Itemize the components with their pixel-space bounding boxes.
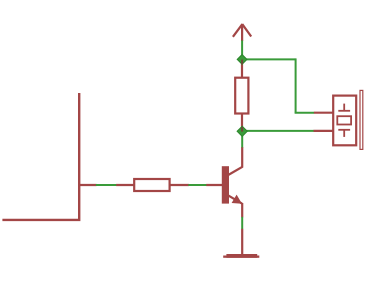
resistor R2 bottom pin (241, 114, 243, 132)
junction J2 pin core (241, 127, 243, 132)
transistor Q1 base pin (206, 184, 222, 186)
transistor Q1 emitter diagonal (228, 195, 242, 203)
buzzer piezo top lead (343, 104, 345, 111)
wire base net right segment (188, 184, 206, 186)
buzzer piezo bottom plate (338, 129, 350, 131)
resistor R1 body (134, 179, 169, 191)
wire base net left segment (96, 184, 117, 186)
wire emitter net (241, 217, 243, 229)
ground pin (241, 229, 243, 255)
buzzer bottom pin (314, 130, 333, 132)
buzzer piezo bottom lead (343, 130, 345, 137)
wire collector net (241, 131, 243, 147)
wire VCC to junction (241, 41, 243, 60)
transistor Q1 base bar (222, 166, 229, 203)
transistor Q1 collector pin (241, 147, 243, 168)
transistor Q1 emitter pin (241, 203, 243, 217)
resistor R1 right pin (171, 184, 189, 186)
buzzer top pin (314, 112, 333, 114)
wire into buzzer top pin (295, 112, 315, 114)
resistor R2 top pin (241, 60, 243, 78)
ground symbol (223, 256, 259, 258)
wire left vertical stub (2, 93, 79, 220)
buzzer SP1 body (333, 96, 356, 146)
buzzer piezo crystal (337, 116, 351, 124)
VCC arrow (233, 24, 251, 37)
buzzer piezo top plate (338, 110, 350, 112)
transistor Q1 emitter arrow (232, 195, 242, 204)
wire top row horizontal (242, 58, 296, 60)
junction J2 bottom (237, 126, 247, 136)
pin left to base net (78, 184, 96, 186)
wire right column vertical (295, 58, 297, 112)
junction J1 top (237, 55, 247, 65)
transistor Q1 collector diagonal (228, 167, 242, 175)
resistor R2 body (235, 78, 248, 114)
wire bottom row horizontal (242, 130, 314, 132)
junction J1 pin core (241, 60, 243, 64)
buzzer SP1 membrane (360, 90, 363, 149)
VCC pin stem (241, 24, 243, 41)
resistor R1 left pin (116, 184, 134, 186)
